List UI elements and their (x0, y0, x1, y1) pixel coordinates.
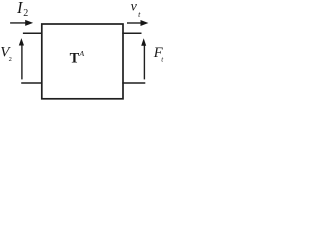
arrow vt (right) shaft (127, 22, 143, 24)
svg-text:2: 2 (23, 8, 28, 19)
wire: right bottom stub (122, 82, 145, 84)
svg-text:T: T (70, 51, 80, 67)
svg-text:A: A (78, 49, 84, 58)
label V2 (0, 44, 12, 63)
arrow I2 (right) shaft (10, 22, 27, 24)
label I2 (16, 0, 28, 19)
arrow V2 (up) shaft (21, 45, 23, 80)
arrow Ft (up) shaft (143, 45, 145, 80)
wire: left top stub (23, 32, 43, 34)
arrow I2 (right) head (25, 20, 33, 26)
svg-text:t: t (161, 56, 164, 64)
label vt (131, 0, 142, 19)
arrow V2 (up) head (19, 38, 24, 45)
label T^A (70, 49, 85, 66)
svg-text:v: v (131, 0, 138, 15)
label Ft (153, 45, 165, 64)
arrow Ft (up) head (141, 38, 146, 46)
arrow vt (right) head (141, 20, 149, 26)
wire: left bottom stub (21, 82, 42, 84)
two-port network box (42, 24, 123, 99)
wire: right top stub (122, 32, 141, 34)
svg-text:t: t (138, 10, 141, 19)
svg-text:2: 2 (9, 56, 12, 63)
